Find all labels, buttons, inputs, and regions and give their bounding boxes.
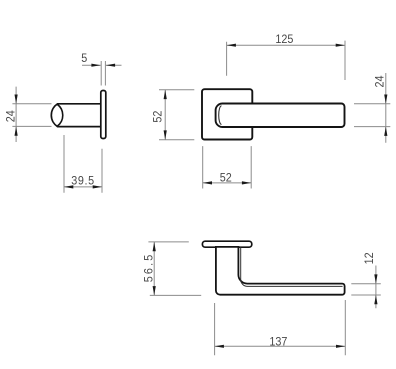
svg-text:39.5: 39.5 (71, 175, 95, 188)
svg-text:24: 24 (374, 75, 387, 88)
svg-text:56.5: 56.5 (143, 253, 156, 283)
svg-text:5: 5 (81, 53, 87, 66)
svg-text:12: 12 (363, 252, 376, 264)
svg-text:24: 24 (5, 110, 18, 123)
svg-text:125: 125 (275, 34, 293, 47)
svg-text:137: 137 (269, 336, 287, 349)
svg-text:52: 52 (152, 111, 165, 123)
svg-text:52: 52 (220, 172, 232, 185)
